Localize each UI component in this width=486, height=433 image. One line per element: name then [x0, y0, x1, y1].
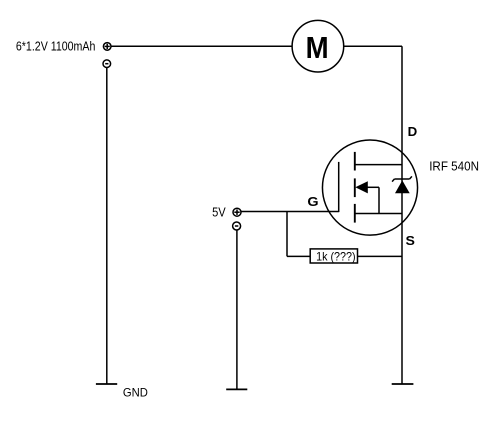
- svg-text:GND: GND: [123, 386, 148, 400]
- svg-text:1k (???): 1k (???): [316, 249, 356, 263]
- svg-text:S: S: [406, 233, 416, 248]
- svg-text:6*1.2V 1100mAh: 6*1.2V 1100mAh: [16, 39, 96, 54]
- svg-text:IRF 540N: IRF 540N: [429, 158, 479, 173]
- svg-text:M: M: [306, 30, 329, 65]
- svg-text:D: D: [408, 124, 418, 139]
- svg-text:G: G: [307, 194, 318, 209]
- svg-text:5V: 5V: [212, 204, 226, 219]
